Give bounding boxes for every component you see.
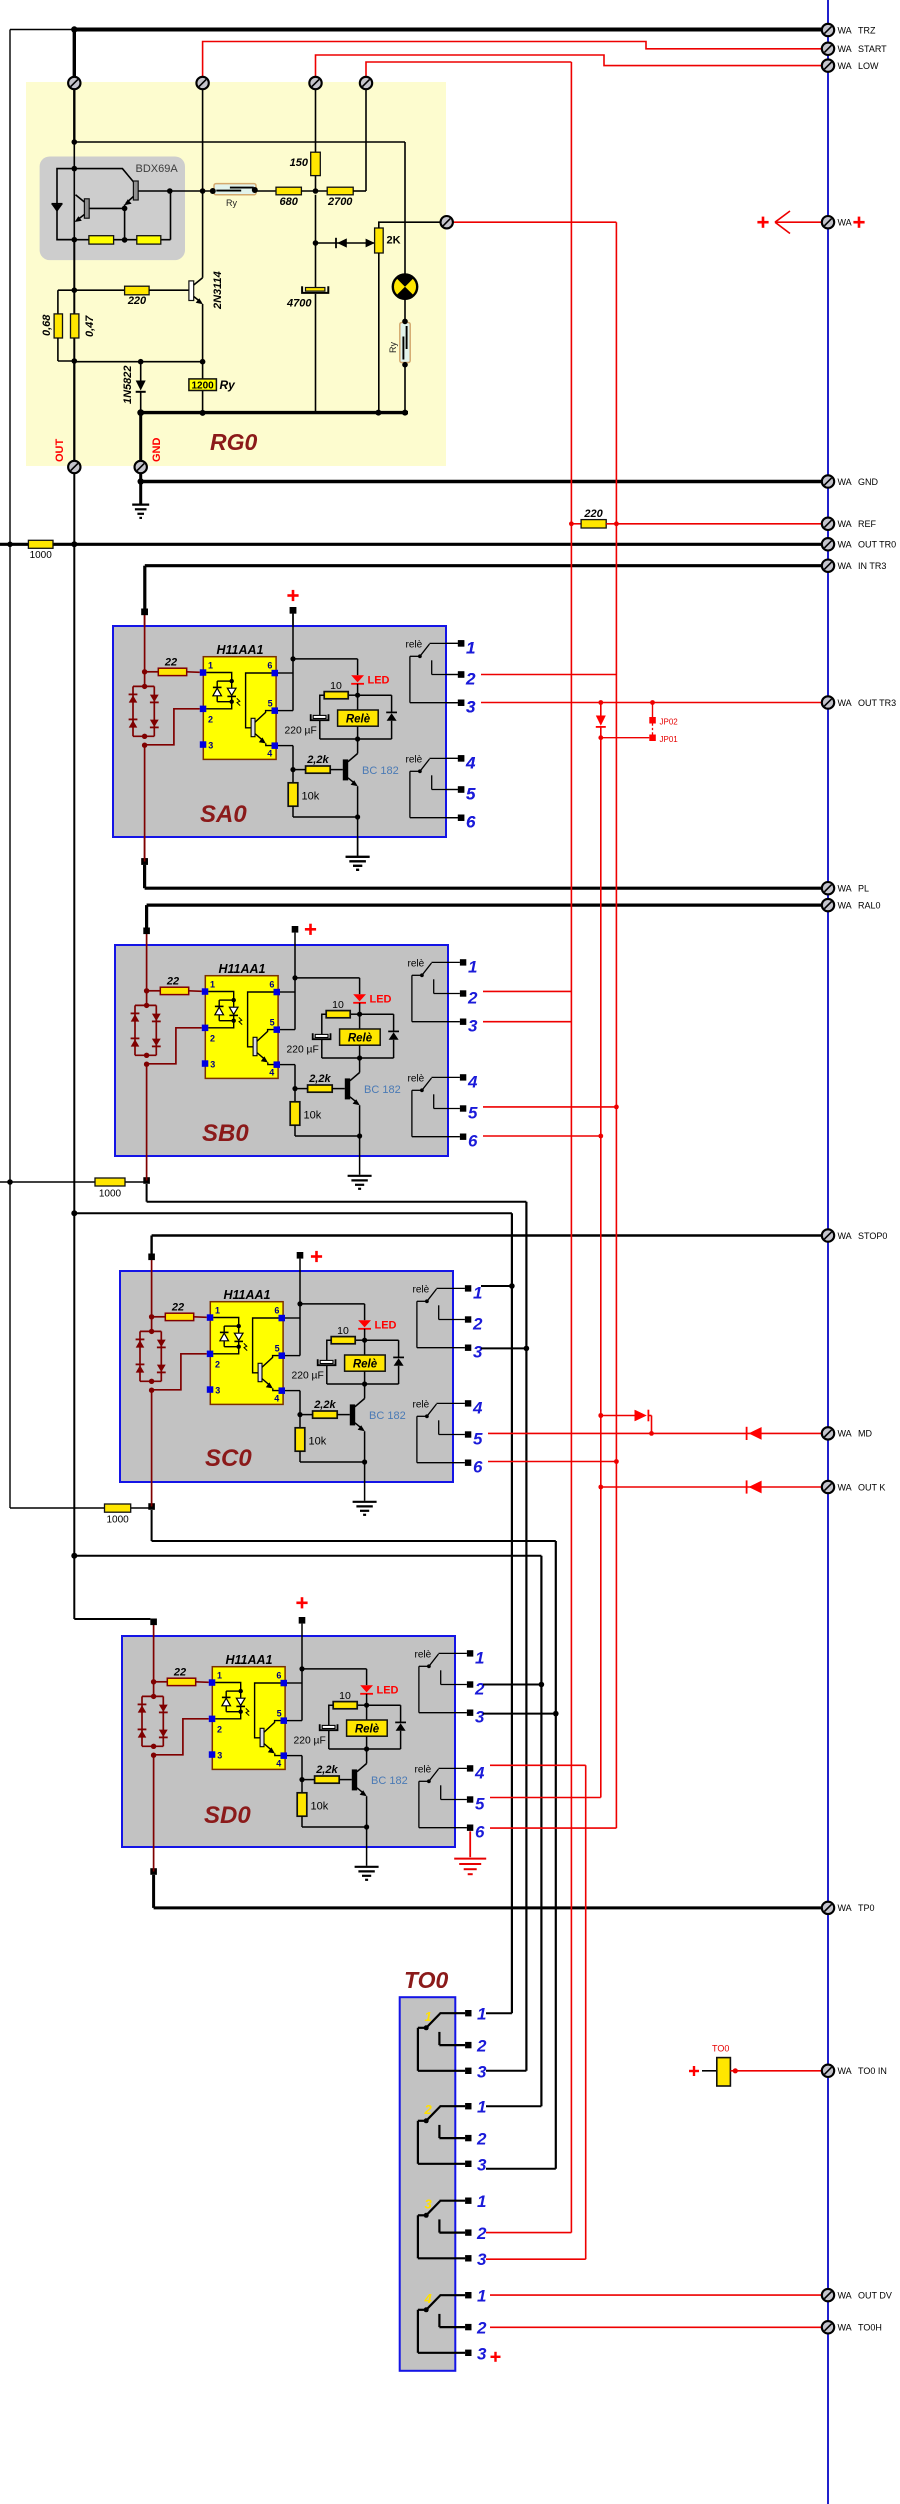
svg-text:RAL0: RAL0: [858, 900, 881, 910]
svg-text:220: 220: [127, 295, 147, 307]
svg-text:WA: WA: [838, 2323, 852, 2333]
svg-text:WA: WA: [838, 61, 852, 71]
svg-text:OUT TR0: OUT TR0: [858, 540, 896, 550]
svg-text:TO0: TO0: [404, 1967, 449, 1993]
svg-text:MD: MD: [858, 1429, 872, 1439]
svg-text:0,47: 0,47: [84, 315, 96, 337]
svg-text:WA: WA: [838, 25, 852, 35]
svg-text:4: 4: [424, 2291, 433, 2306]
svg-text:SB0: SB0: [202, 1120, 249, 1147]
svg-text:Ry: Ry: [220, 378, 237, 392]
svg-text:2700: 2700: [327, 196, 353, 208]
svg-text:BDX69A: BDX69A: [136, 163, 179, 175]
svg-text:WA: WA: [838, 44, 852, 54]
svg-text:PL: PL: [858, 884, 869, 894]
svg-text:680: 680: [280, 196, 299, 208]
svg-text:OUT TR3: OUT TR3: [858, 698, 896, 708]
svg-text:WA: WA: [838, 1903, 852, 1913]
svg-text:LOW: LOW: [858, 61, 879, 71]
svg-text:1N5822: 1N5822: [122, 365, 134, 404]
svg-text:WA: WA: [838, 477, 852, 487]
svg-text:Ry: Ry: [388, 342, 398, 353]
svg-text:GND: GND: [151, 438, 163, 463]
svg-text:START: START: [858, 44, 887, 54]
svg-text:220: 220: [583, 508, 603, 520]
svg-text:2K: 2K: [387, 235, 401, 247]
svg-text:Ry: Ry: [226, 198, 237, 208]
svg-text:WA: WA: [838, 1231, 852, 1241]
svg-text:WA: WA: [838, 698, 852, 708]
svg-text:TO0H: TO0H: [858, 2323, 882, 2333]
svg-text:TO0 IN: TO0 IN: [858, 2066, 887, 2076]
svg-text:150: 150: [290, 157, 309, 169]
svg-text:TO0: TO0: [712, 2044, 729, 2054]
svg-text:STOP0: STOP0: [858, 1231, 887, 1241]
svg-text:IN TR3: IN TR3: [858, 561, 886, 571]
svg-text:3: 3: [425, 2197, 433, 2212]
svg-text:WA: WA: [838, 561, 852, 571]
svg-text:1: 1: [477, 2005, 486, 2024]
svg-text:WA: WA: [838, 2290, 852, 2300]
svg-text:REF: REF: [858, 519, 877, 529]
svg-text:OUT DV: OUT DV: [858, 2290, 892, 2300]
svg-text:3: 3: [477, 2062, 487, 2081]
svg-text:WA: WA: [838, 1482, 852, 1492]
svg-text:WA: WA: [838, 218, 852, 228]
svg-text:WA: WA: [838, 884, 852, 894]
svg-text:WA: WA: [838, 519, 852, 529]
svg-text:1: 1: [425, 2009, 432, 2024]
svg-text:WA: WA: [838, 2066, 852, 2076]
svg-text:JP01: JP01: [660, 735, 679, 744]
svg-text:OUT: OUT: [54, 439, 66, 463]
svg-text:2N3114: 2N3114: [212, 271, 224, 310]
svg-text:SD0: SD0: [204, 1802, 251, 1829]
svg-text:1000: 1000: [106, 1515, 129, 1526]
svg-text:0,68: 0,68: [41, 314, 53, 336]
svg-text:1000: 1000: [30, 550, 53, 561]
svg-text:4700: 4700: [286, 298, 312, 310]
svg-text:1000: 1000: [99, 1189, 122, 1200]
svg-text:2: 2: [476, 2037, 487, 2056]
svg-text:SC0: SC0: [205, 1445, 252, 1472]
svg-text:WA: WA: [838, 540, 852, 550]
svg-text:TP0: TP0: [858, 1903, 875, 1913]
svg-text:WA: WA: [838, 900, 852, 910]
svg-text:WA: WA: [838, 1429, 852, 1439]
svg-text:GND: GND: [858, 477, 879, 487]
svg-text:1200: 1200: [191, 380, 214, 391]
svg-text:JP02: JP02: [660, 718, 679, 727]
svg-text:SA0: SA0: [200, 801, 247, 828]
svg-text:OUT K: OUT K: [858, 1482, 885, 1492]
svg-text:TRZ: TRZ: [858, 25, 876, 35]
svg-text:RG0: RG0: [210, 429, 258, 455]
svg-text:2: 2: [424, 2102, 433, 2117]
